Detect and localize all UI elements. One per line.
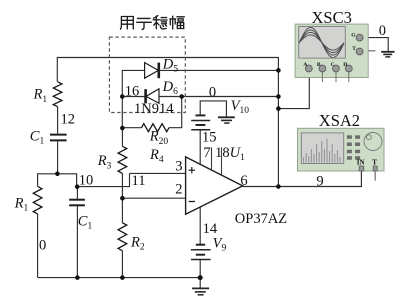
junction right rail at D6 wire bbox=[276, 94, 281, 99]
wire R20 left lead bbox=[122, 127, 141, 129]
svg-text:11: 11 bbox=[132, 173, 146, 189]
svg-text:3: 3 bbox=[175, 158, 182, 174]
XSC3 terminal T bbox=[356, 48, 375, 55]
svg-text:XSC3: XSC3 bbox=[312, 8, 352, 27]
junction ground rail at C1 lower bbox=[75, 275, 80, 280]
wire node 10 to step bbox=[77, 173, 129, 186]
svg-text:10: 10 bbox=[79, 172, 94, 188]
wire R1 lower bottom to ground rail bbox=[37, 214, 39, 278]
svg-text:7: 7 bbox=[203, 145, 210, 161]
junction right rail at output net 9 bbox=[276, 184, 281, 189]
junction node 10 at C1 lower bbox=[75, 184, 80, 189]
svg-text:15: 15 bbox=[202, 129, 217, 145]
svg-text:12: 12 bbox=[61, 111, 76, 127]
wire horizontal left Wien node bbox=[38, 174, 77, 187]
wire R3 top to diode column bbox=[121, 128, 123, 146]
battery V10 bbox=[191, 115, 210, 129]
junction ground rail at V9 bbox=[198, 275, 203, 280]
ground near V10 bbox=[218, 117, 235, 123]
wire node 11 to op-amp pin 3 bbox=[130, 172, 186, 174]
wire XSC3 A terminal to right rail bbox=[278, 72, 309, 109]
chinese title yong yu wen fu bbox=[121, 16, 185, 30]
oscilloscope XSC3 body bbox=[295, 24, 368, 77]
wire bottom ground rail bbox=[38, 277, 201, 279]
svg-text:T: T bbox=[352, 46, 356, 52]
junction ground rail at R2 bbox=[120, 275, 125, 280]
svg-text:0: 0 bbox=[379, 23, 386, 39]
wire op-amp pin 4 to V9 bbox=[199, 207, 201, 244]
oscilloscope waveform traces bbox=[299, 27, 344, 57]
svg-text:9: 9 bbox=[316, 173, 323, 189]
wire inverting input pin 2 bbox=[122, 197, 185, 199]
wire D6 cathode to node 16 bbox=[122, 96, 145, 98]
wire diode branch left column bbox=[122, 70, 144, 128]
ground bottom bbox=[192, 288, 209, 294]
resistor R2 bbox=[118, 223, 127, 251]
ground near XSC3 bbox=[381, 52, 394, 57]
svg-text:C: C bbox=[331, 62, 335, 68]
junction node 10 top bbox=[55, 172, 60, 177]
XSC3 terminal A bbox=[305, 65, 312, 72]
op-amp plus sign bbox=[189, 167, 195, 173]
junction node 16 at D6 bbox=[120, 94, 125, 99]
XSA2 knob bbox=[364, 133, 382, 151]
XSC3 terminal G bbox=[356, 34, 363, 41]
svg-text:16: 16 bbox=[125, 83, 140, 99]
junction right rail at D5 wire bbox=[276, 68, 281, 73]
junction node 16 at R20 left bbox=[120, 126, 125, 131]
svg-text:T: T bbox=[372, 158, 377, 166]
resistor R1 upper bbox=[53, 82, 62, 107]
svg-text:B: B bbox=[317, 62, 321, 68]
diode D5 bbox=[145, 63, 159, 79]
svg-text:0: 0 bbox=[39, 238, 46, 254]
XSC3 terminal D bbox=[345, 65, 352, 82]
wire C1 upper down to node junction bbox=[57, 141, 59, 173]
wire top rail from R1 top to right rail bbox=[57, 58, 278, 187]
resistor R1 lower bbox=[33, 186, 42, 214]
wire output net 9 to XSA2 IN bbox=[243, 171, 362, 187]
XSA2 spectrum bars bbox=[304, 139, 340, 163]
op-amp pin 1 stub bbox=[211, 147, 213, 170]
wire V9 to ground junction bbox=[199, 260, 201, 289]
diode D6 bbox=[146, 89, 159, 104]
wire net 0 bracket over V10 bbox=[200, 101, 226, 117]
op-amp U1 triangle bbox=[186, 157, 243, 214]
wire D6 anode to right rail bbox=[159, 96, 278, 98]
wire R2 stems bbox=[121, 198, 123, 223]
svg-text:OP37AZ: OP37AZ bbox=[235, 211, 288, 227]
wire R1 upper to C1 upper bbox=[57, 107, 59, 134]
XSC3 terminal letters bbox=[303, 33, 356, 68]
XSC3 terminal C bbox=[333, 65, 340, 82]
junction R20 right at D6 wire bbox=[179, 94, 184, 99]
wire R3 bottom to node 2 bbox=[121, 173, 123, 198]
wire D5 cathode to right rail bbox=[160, 69, 279, 71]
resistor R20 bbox=[142, 124, 170, 132]
wire V10 minus to op-amp pin 7 bbox=[199, 130, 201, 165]
svg-text:6: 6 bbox=[240, 173, 247, 189]
svg-text:IN: IN bbox=[357, 159, 365, 167]
wire C1 lower stems bbox=[76, 187, 78, 199]
wire R20 right lead up to diode net bbox=[169, 97, 182, 128]
wire XSC3 G terminal to ground bbox=[363, 38, 388, 52]
spectrum analyzer XSA2 body bbox=[298, 128, 385, 171]
op-amp pin 8 stub bbox=[221, 147, 223, 175]
XSA2 IN terminal bbox=[357, 159, 365, 171]
XSA2 buttons bbox=[347, 135, 360, 159]
svg-text:1: 1 bbox=[215, 145, 222, 161]
capacitor C1 upper bbox=[50, 135, 67, 141]
svg-text:2: 2 bbox=[175, 182, 182, 198]
svg-text:0: 0 bbox=[209, 84, 216, 100]
XSA2 T terminal bbox=[372, 158, 377, 180]
battery V9 bbox=[191, 245, 211, 260]
svg-text:1N914: 1N914 bbox=[134, 101, 174, 117]
XSC3 terminal B bbox=[319, 65, 326, 82]
resistor R3 bbox=[118, 146, 127, 173]
op-amp minus sign bbox=[189, 201, 195, 203]
svg-text:A: A bbox=[303, 62, 307, 68]
junction right rail at XSC3 A wire bbox=[276, 106, 281, 111]
junction inverting input node bbox=[120, 196, 125, 201]
svg-text:XSA2: XSA2 bbox=[319, 111, 360, 130]
svg-text:G: G bbox=[351, 33, 356, 39]
capacitor C1 lower bbox=[69, 200, 85, 206]
svg-text:D: D bbox=[343, 62, 347, 68]
dashed stabilization box bbox=[109, 37, 185, 112]
